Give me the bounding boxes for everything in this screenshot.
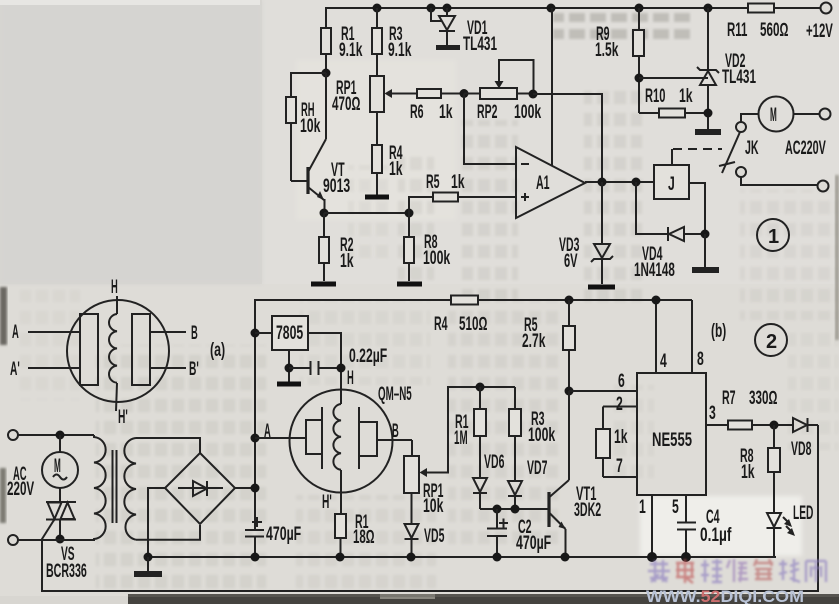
wire JK lower contact to terminal (741, 177, 817, 185)
pin 8 (692, 300, 704, 373)
node B' lead (150, 359, 199, 380)
inductor sensor heater coil (333, 404, 341, 470)
svg-text:R7: R7 (722, 388, 736, 409)
svg-text:TL431: TL431 (722, 67, 756, 88)
svg-text:H': H' (322, 492, 332, 513)
resistor R5 1k (409, 172, 516, 213)
svg-text:A: A (12, 322, 19, 343)
svg-text:330Ω: 330Ω (749, 388, 777, 409)
node 7805 ground junction (285, 364, 294, 373)
resistor R6 1k (391, 89, 464, 123)
node emitter junction (320, 209, 329, 218)
svg-text:470µF: 470µF (516, 533, 551, 554)
sensor electrode right (359, 407, 377, 469)
node R5 bottom junction (565, 387, 574, 396)
switch JK contacts (719, 122, 759, 177)
wire AC upper (18, 434, 94, 436)
gas sensor QM-N5 (290, 384, 412, 493)
wire base line (480, 508, 548, 510)
svg-text:A': A' (10, 359, 20, 380)
svg-text:B': B' (189, 359, 199, 380)
svg-text:B: B (191, 323, 198, 344)
svg-text:1: 1 (768, 226, 779, 248)
node A sensor lead (255, 421, 306, 442)
svg-text:470µF: 470µF (266, 524, 301, 545)
diode VD5 (405, 493, 445, 557)
svg-text:6V: 6V (564, 251, 578, 272)
pin 4 (656, 300, 667, 373)
svg-text:J: J (668, 174, 675, 195)
svg-text:A: A (264, 421, 271, 442)
svg-text:JK: JK (745, 138, 759, 159)
svg-text:R10: R10 (645, 86, 665, 107)
svg-text:WWW.52DIQI.COM: WWW.52DIQI.COM (646, 587, 804, 604)
svg-text:QM–N5: QM–N5 (378, 384, 412, 405)
svg-text:BCR336: BCR336 (46, 561, 87, 582)
diode VD3 6V zener (559, 182, 613, 284)
svg-text:1k: 1k (741, 462, 755, 483)
ground R8 (397, 282, 422, 287)
node R9 bottom (635, 74, 644, 83)
svg-text:R5: R5 (426, 172, 440, 193)
svg-text:R6: R6 (410, 102, 424, 123)
pin 2 (603, 394, 637, 415)
resistor R3 9.1k (372, 8, 412, 76)
bridge rectifier (165, 453, 235, 524)
wire feedback to output (533, 94, 602, 182)
resistor R10 1k (639, 86, 708, 118)
svg-text:10k: 10k (300, 116, 321, 137)
svg-text:1M: 1M (454, 428, 468, 449)
ground VD4 (692, 267, 719, 273)
wire AC lower (18, 539, 94, 541)
pin 7 (603, 456, 637, 477)
svg-text:7: 7 (616, 456, 623, 477)
svg-text:1: 1 (639, 497, 646, 518)
svg-text:1k: 1k (439, 102, 453, 123)
svg-text:R11: R11 (727, 20, 748, 41)
svg-text:NE555: NE555 (652, 430, 692, 451)
capacitor C2 470uF (487, 509, 551, 557)
svg-text:LED: LED (793, 503, 813, 524)
node B lead (150, 323, 198, 344)
op-amp A1 (516, 147, 585, 218)
node output junctions (598, 178, 641, 187)
svg-text:100k: 100k (528, 425, 555, 446)
wire dashed mechanical link JK (673, 148, 722, 150)
svg-text:1k: 1k (679, 86, 693, 107)
node H junction (337, 364, 354, 390)
ground R4 (365, 195, 389, 200)
transformer secondary (124, 438, 136, 540)
node R7 R8 junction (770, 421, 779, 430)
wire A1 power from rail (551, 8, 553, 166)
svg-text:3: 3 (709, 403, 716, 424)
svg-text:9.1k: 9.1k (339, 40, 363, 61)
svg-text:H': H' (118, 407, 128, 428)
capacitor 0.22uF (289, 346, 387, 375)
transformer core (113, 450, 117, 523)
svg-text:7805: 7805 (276, 323, 303, 344)
svg-text:510Ω: 510Ω (459, 314, 487, 335)
wire RP1 wiper to divider (426, 387, 515, 473)
wire emitter to R8 top (324, 212, 409, 214)
terminal AC source upper (8, 430, 18, 440)
svg-text:(b): (b) (711, 321, 726, 342)
node H top lead (111, 277, 118, 314)
node H' sensor (322, 470, 341, 514)
wire J top to dashed link (671, 149, 673, 165)
node R6 RP2 junction (460, 89, 469, 98)
svg-text:1k: 1k (389, 159, 403, 180)
svg-text:6: 6 (618, 371, 625, 392)
resistor R7 330ohm (722, 388, 793, 430)
wire J right to VD4 (689, 183, 705, 234)
svg-text:4: 4 (660, 351, 667, 372)
regulator 7805 (255, 316, 308, 382)
motor M AC220V (741, 97, 826, 160)
terminal M right (820, 109, 831, 120)
node VS lower junction (56, 535, 65, 544)
node RP2 right feedback (529, 90, 538, 99)
transformer primary (94, 435, 106, 541)
svg-text:18Ω: 18Ω (353, 527, 375, 548)
wire secondary bottom to bridge (136, 525, 200, 540)
terminal AC source lower (8, 535, 18, 545)
pin 5 (672, 497, 679, 518)
svg-text:220V: 220V (7, 479, 34, 500)
resistor 1k timing (596, 407, 628, 478)
ground VD3 (588, 285, 615, 290)
svg-text:H: H (111, 277, 118, 298)
wire bridge minus to ground rail (148, 488, 165, 557)
svg-text:+12V: +12V (806, 21, 833, 42)
svg-text:AC220V: AC220V (785, 138, 826, 159)
pin 6 (569, 371, 637, 392)
winding electrode left (80, 314, 98, 385)
svg-text:1.5k: 1.5k (595, 40, 619, 61)
transistor VT 9013 (291, 139, 350, 213)
resistor R9 1.5k (595, 8, 644, 113)
node DC junctions (251, 329, 260, 493)
svg-text:1N4148: 1N4148 (634, 260, 675, 281)
node ground rail junctions (144, 552, 692, 562)
diode VD8 (791, 418, 818, 460)
node R1 1M top junction (476, 383, 485, 392)
node R1 bottom (322, 69, 331, 78)
svg-text:VD5: VD5 (424, 526, 445, 547)
resistor R4 510ohm (434, 296, 692, 336)
diode VD6 (473, 452, 504, 509)
wire main DC vertical (255, 300, 451, 557)
wire bridge plus output (235, 487, 255, 489)
wire secondary top to bridge (136, 438, 200, 453)
terminal AC220V lower (818, 181, 829, 192)
LED indicator (767, 503, 814, 557)
wire VD4 to ground (704, 234, 706, 267)
resistor R3 100k (509, 387, 555, 481)
ground R2 (311, 282, 336, 287)
svg-text:0.1µf: 0.1µf (700, 525, 732, 546)
resistor R8 100k (404, 213, 450, 281)
resistor R1 18ohm heater (335, 512, 375, 557)
node R8 top junction (405, 209, 414, 218)
resistor R2 1k (319, 213, 354, 281)
svg-text:1k: 1k (614, 427, 628, 448)
node VD2 R10 junction (704, 109, 713, 118)
wire inverting input (464, 94, 516, 165)
resistor R5 2.7k (522, 300, 575, 391)
svg-text:VD7: VD7 (527, 458, 547, 479)
pin 3 (706, 403, 728, 425)
ground 7805 (277, 382, 301, 387)
node circuit number 1 (757, 219, 789, 251)
svg-text:10k: 10k (423, 496, 444, 517)
timer NE555 (637, 373, 706, 495)
potentiometer RP2 100k (464, 60, 541, 123)
ground VD2 (695, 129, 721, 135)
potentiometer RP1 10k (404, 440, 444, 517)
node B sensor lead (377, 421, 412, 442)
svg-text:100k: 100k (423, 248, 450, 269)
wire A1 output (585, 181, 654, 183)
resistor R4 1k (372, 143, 403, 195)
terminal +12V (806, 3, 833, 43)
inductor stator heater coil (109, 314, 117, 383)
node circuit number 2 (755, 324, 787, 356)
capacitor C4 0.1uF (677, 495, 732, 557)
svg-text:100k: 100k (514, 102, 541, 123)
resistor R11 560ohm (727, 4, 788, 42)
motor M pump (42, 435, 78, 488)
svg-text:B: B (392, 421, 399, 442)
resistor RH 10k (286, 73, 326, 181)
resistor R1 1M (454, 387, 486, 478)
node pin4 junction (652, 296, 661, 305)
wire 7805 output to heater H (308, 333, 341, 404)
node R5 top junction (565, 296, 574, 305)
svg-text:H: H (347, 368, 354, 389)
svg-text:TL431: TL431 (463, 34, 497, 55)
motor stator winding diagram (a) (67, 300, 225, 402)
diode VD2 TL431 (697, 8, 756, 130)
svg-text:2: 2 (616, 394, 623, 415)
svg-text:5: 5 (672, 497, 679, 518)
ground bottom rail (134, 557, 162, 577)
transistor VT1 3DK2 (549, 391, 601, 557)
node A lead (12, 322, 80, 343)
svg-text:9.1k: 9.1k (388, 40, 412, 61)
winding electrode right (132, 314, 150, 385)
triac VS BCR336 (46, 488, 87, 582)
svg-text:2: 2 (766, 331, 777, 353)
svg-text:M: M (770, 105, 777, 126)
svg-text:560Ω: 560Ω (760, 20, 788, 41)
svg-text:VD8: VD8 (791, 439, 811, 460)
wire R1 to VT collector (325, 73, 327, 139)
svg-text:470Ω: 470Ω (332, 94, 360, 115)
wire triac gate line (42, 425, 818, 591)
resistor R8 1k (740, 425, 780, 513)
relay coil J (654, 165, 689, 199)
diode VD7 (508, 458, 547, 509)
node AC 220V label (7, 464, 34, 500)
svg-text:2.7k: 2.7k (522, 331, 546, 352)
pin 1 (639, 495, 652, 557)
svg-text:3DK2: 3DK2 (574, 500, 601, 521)
potentiometer RP1 470ohm (332, 76, 392, 145)
svg-text:R4: R4 (434, 314, 448, 335)
node H' bottom lead (116, 383, 128, 428)
svg-text:1k: 1k (340, 251, 354, 272)
svg-text:0.22µF: 0.22µF (349, 346, 387, 367)
diode VD4 1N4148 (634, 182, 705, 281)
svg-text:8: 8 (697, 349, 704, 370)
node M branch (56, 431, 65, 440)
node base junctions (493, 505, 520, 514)
node VD4 cathode junction (701, 230, 710, 239)
svg-text:RP2: RP2 (477, 102, 497, 123)
capacitor 470uF filter (245, 517, 301, 545)
wire bottom ground rail (148, 556, 776, 558)
svg-text:(a): (a) (210, 340, 225, 361)
sensor electrode left (306, 407, 322, 469)
svg-text:9013: 9013 (323, 176, 350, 197)
diode VD1 TL431 (431, 8, 497, 55)
node rail junctions (373, 4, 713, 13)
svg-text:A1: A1 (536, 173, 550, 194)
svg-text:VD6: VD6 (484, 452, 504, 473)
svg-text:1k: 1k (451, 172, 465, 193)
resistor R1 9.1k (321, 24, 363, 73)
node A' lead (10, 359, 80, 380)
wire R9 to VD2 ref (639, 77, 708, 79)
wire top +12V rail (326, 8, 820, 28)
